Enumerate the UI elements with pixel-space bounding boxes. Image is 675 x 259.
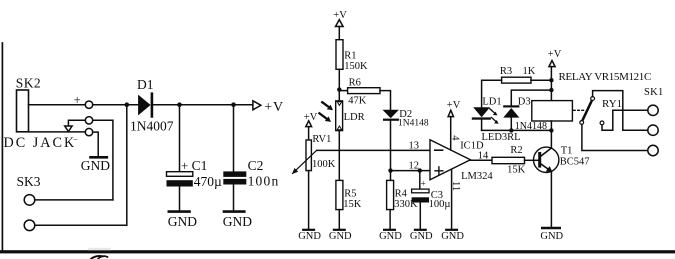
relay switch pivot contact	[580, 121, 584, 125]
relay switch NO contact	[600, 121, 604, 125]
wire D2 cathode to pin12 node	[390, 121, 392, 181]
wire R4 to ground	[389, 210, 391, 229]
jack pin 1 circle	[85, 101, 92, 108]
svg-text:GND: GND	[410, 231, 433, 242]
svg-text:+V: +V	[304, 112, 318, 123]
relay RY1 coil box	[532, 101, 573, 121]
relay dotted actuation link	[574, 109, 586, 111]
connector SK1 circle 2	[648, 125, 658, 135]
svg-text:100n: 100n	[248, 174, 280, 189]
diode D2	[383, 110, 399, 121]
LDR body	[336, 101, 343, 131]
capacitor C1 (electrolytic)	[167, 105, 193, 211]
svg-text:4: 4	[449, 135, 460, 141]
LED LD1 emission arrow 1	[490, 109, 498, 116]
connector SK3 circle 2	[24, 220, 35, 231]
wire jack pin3 to ground	[93, 132, 99, 156]
potentiometer RV1 body	[306, 140, 311, 171]
diode D3 (flyback)	[503, 105, 519, 117]
wire R2 to T1 base	[525, 159, 539, 161]
node junction collector/rail	[549, 128, 553, 132]
svg-text:SK3: SK3	[17, 174, 41, 189]
wire pin 4	[450, 117, 452, 150]
svg-text:RY1: RY1	[602, 98, 622, 110]
resistor R2	[492, 157, 525, 163]
wire indicator rail	[482, 129, 552, 131]
node junction main rail / SK1 riser	[125, 102, 130, 107]
svg-text:1N4148: 1N4148	[398, 118, 429, 128]
op-amp minus input mark	[435, 149, 443, 151]
svg-text:+V: +V	[264, 100, 284, 115]
wire jack pin1 to D1 anode	[93, 104, 138, 106]
svg-text:D1: D1	[137, 77, 154, 92]
wire op-amp output pin 14	[470, 159, 492, 161]
resistor R5	[336, 180, 343, 209]
power +V arrow (pin 4)	[448, 110, 453, 116]
wire D3 cathode up	[511, 90, 551, 105]
wire D3 anode to rail	[510, 118, 512, 131]
svg-text:C2: C2	[248, 158, 264, 173]
wire T1 collector to rail	[550, 130, 552, 148]
LED LD1 emission arrow 2	[492, 118, 499, 124]
decorative partial glyph bottom	[91, 256, 103, 259]
wire T1 emitter to ground	[550, 172, 552, 227]
svg-text:GND: GND	[329, 231, 352, 242]
svg-text:11: 11	[450, 181, 461, 191]
svg-text:LDR: LDR	[344, 112, 365, 123]
wire R3 left to LED1 anode	[482, 80, 502, 107]
LED LD1	[472, 107, 491, 120]
ground (RV1)	[303, 229, 314, 231]
wire +V to relay coil	[550, 67, 552, 101]
ground (jack)	[91, 156, 107, 159]
wire D1 cathode to +V arrow	[153, 104, 253, 106]
LDR light arrow 2	[319, 113, 331, 122]
relay switch top contact	[591, 97, 595, 101]
wire +V to R1	[338, 27, 340, 40]
svg-text:+V: +V	[548, 49, 562, 60]
node junction C1 tap	[177, 102, 182, 107]
connector SK3 circle 1	[24, 195, 35, 206]
ground (C3)	[415, 229, 426, 231]
svg-text:15K: 15K	[507, 164, 525, 175]
ground (pin 11)	[446, 229, 457, 231]
svg-text:R3: R3	[500, 66, 512, 77]
resistor R6	[348, 88, 380, 94]
svg-text:1N4007: 1N4007	[130, 119, 174, 134]
wire SK2 to jack pin 1	[29, 104, 86, 106]
svg-text:470µ: 470µ	[194, 174, 222, 189]
svg-text:RELAY VR15M121C: RELAY VR15M121C	[559, 71, 651, 83]
svg-text:SK1: SK1	[644, 87, 664, 98]
wire LDR to R5	[338, 131, 340, 181]
svg-text:15K: 15K	[343, 199, 362, 210]
connector SK2 (DC jack barrel)	[17, 90, 29, 132]
wire R1 to node A	[338, 69, 340, 101]
svg-text:47K: 47K	[348, 96, 367, 107]
jack pin 2 circle	[85, 117, 92, 124]
ground (C2)	[224, 210, 244, 213]
node junction C3 tap	[418, 168, 422, 172]
svg-text:+: +	[74, 93, 81, 107]
svg-text:150K: 150K	[344, 61, 368, 72]
svg-text:R2: R2	[510, 145, 522, 156]
wire SK3-2 to main rail	[35, 105, 127, 226]
wire RV1 wiper to op-amp pin 13	[317, 149, 430, 151]
svg-text:RV1: RV1	[312, 134, 331, 145]
op-amp IC1D triangle	[430, 140, 470, 180]
power +V arrow (RV1 top)	[306, 121, 312, 127]
svg-text:13: 13	[409, 140, 420, 151]
svg-text:SK2: SK2	[16, 76, 41, 91]
ground (R4)	[384, 229, 395, 231]
svg-text:+V: +V	[447, 100, 461, 111]
wire relay coil to rail	[550, 121, 552, 130]
svg-text:14: 14	[478, 150, 489, 161]
potentiometer RV1 wiper arrow	[292, 150, 317, 174]
wire +V to RV1	[308, 127, 310, 140]
node junction D3/rail	[509, 128, 513, 132]
svg-text:R6: R6	[349, 77, 361, 88]
wire LD1 cathode to rail	[481, 120, 483, 131]
node junction C2 tap	[231, 102, 236, 107]
svg-text:330K: 330K	[394, 199, 418, 210]
wire jack sleeve line	[29, 131, 86, 133]
wire RV1 to ground	[308, 171, 310, 229]
wire jack pin2 left to switch arrow	[68, 120, 85, 126]
svg-text:+V: +V	[333, 10, 347, 21]
transistor T1	[534, 147, 559, 172]
relay switch arm	[582, 100, 592, 121]
svg-text:+ C1: + C1	[181, 158, 207, 173]
svg-text:R5: R5	[344, 189, 356, 200]
ground (T1)	[542, 227, 559, 230]
wire R5 to ground	[338, 210, 340, 229]
ground (C1)	[169, 210, 190, 213]
power +V arrow (relay)	[549, 61, 555, 67]
svg-text:GND: GND	[81, 158, 110, 173]
node junction pin12 / D2 / R4	[388, 168, 392, 172]
resistor R3	[502, 77, 531, 83]
svg-text:1K: 1K	[523, 66, 536, 77]
ground (R5)	[334, 229, 345, 231]
svg-text:GND: GND	[298, 231, 321, 242]
svg-text:LM324: LM324	[461, 171, 493, 182]
wire pin 12	[391, 170, 431, 172]
svg-text:GND: GND	[540, 231, 563, 242]
svg-text:GND: GND	[168, 214, 197, 229]
svg-text:LD1: LD1	[482, 97, 501, 108]
power +V arrow (main rail)	[253, 101, 261, 110]
connector SK1 circle 1	[648, 105, 658, 115]
wire pivot to SK1-3	[582, 124, 648, 150]
wire node A to R6	[339, 90, 347, 92]
svg-text:LED3RL: LED3RL	[482, 132, 521, 143]
node junction R3/+V	[549, 78, 553, 82]
svg-text:GND: GND	[223, 214, 252, 229]
power +V arrow (R1 top)	[336, 20, 344, 27]
capacitor C3 (electrolytic)	[412, 171, 429, 229]
wire NO contact to SK1-1	[602, 110, 648, 130]
wire R6 to D2 anode	[380, 91, 391, 110]
svg-text:12: 12	[409, 161, 420, 172]
connector SK1 circle 3	[648, 145, 658, 155]
svg-text:100K: 100K	[312, 159, 336, 170]
node A junction dot	[337, 87, 341, 91]
svg-text:1N4148: 1N4148	[515, 121, 547, 132]
node junction D3/+V	[549, 88, 553, 92]
wire SK3-1 to jack pin2	[35, 199, 113, 201]
svg-text:D3: D3	[518, 97, 531, 108]
capacitor C2	[223, 105, 246, 211]
op-amp plus input mark	[435, 167, 443, 175]
jack switch arrow	[65, 126, 72, 132]
resistor R4	[387, 180, 394, 209]
wire pin 11 to ground	[451, 169, 453, 228]
svg-text:GND: GND	[379, 231, 402, 242]
svg-text:GND: GND	[441, 231, 464, 242]
svg-text:DC JACK: DC JACK	[4, 135, 77, 151]
wire R3 right to +V node	[531, 79, 551, 81]
border left edge	[1, 43, 3, 252]
diode D1	[138, 92, 153, 117]
border bottom edge	[0, 250, 675, 253]
wire top contact to SK1-2	[593, 91, 648, 131]
LDR light arrow 1	[322, 102, 333, 110]
jack pin 3 circle	[85, 128, 92, 135]
svg-text:+: +	[421, 180, 426, 190]
svg-text:100µ: 100µ	[429, 199, 451, 210]
wire jack pin2 right to SK3 riser	[93, 120, 113, 200]
svg-text:BC547: BC547	[560, 156, 590, 167]
svg-text:T1: T1	[561, 146, 573, 157]
resistor R1	[336, 40, 343, 70]
